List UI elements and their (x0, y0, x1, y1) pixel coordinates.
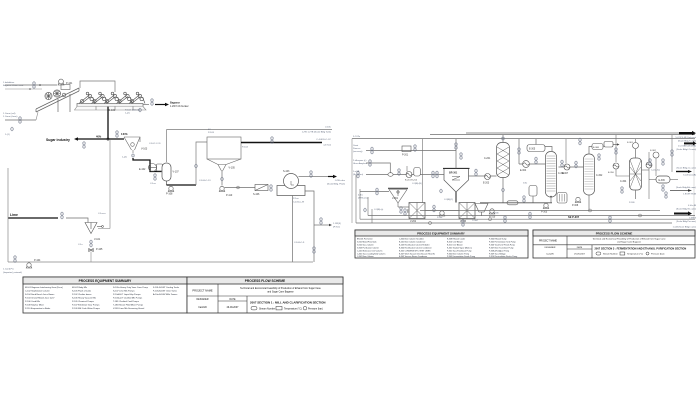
output: stillage arrow (674, 211, 692, 215)
svg-text:C-3(B)(C): C-3(B)(C) (444, 199, 453, 201)
wire: milk of lime down (90, 252, 92, 263)
svg-text:E-308: E-308 (593, 147, 600, 149)
CO2 scrubber C-201 (497, 143, 510, 178)
svg-text:P-105 Chemical Pumps: P-105 Chemical Pumps (72, 301, 94, 303)
mixer node (388, 173, 393, 177)
wire: juice to sugar industry (74, 137, 124, 140)
svg-text:(Scale Bldg. Plant): (Scale Bldg. Plant) (327, 183, 345, 186)
wire: yeast line (366, 150, 456, 152)
svg-text:P-309 Sacc.Stillage: P-309 Sacc.Stillage (489, 253, 506, 256)
wire: beer column bottoms (550, 197, 552, 203)
svg-text:Gluco.Amylase: Gluco.Amylase (353, 162, 368, 165)
svg-text:C-10C-C-11: C-10C-C-11 (149, 143, 161, 145)
svg-text:Technical and Economical Feasi: Technical and Economical Feasibility of … (240, 287, 321, 290)
wire: NH3 line (360, 191, 389, 193)
pump P-104 bottom (26, 263, 32, 268)
mill unit 1 (79, 92, 95, 103)
wire: beer feed to column (519, 163, 546, 165)
svg-text:P-110: P-110 (226, 194, 233, 197)
wire: bottom rail A (420, 210, 660, 212)
svg-text:P-308 pHs Adjust Pump: P-308 pHs Adjust Pump (489, 250, 509, 253)
table body: equipment list column 2 (72, 287, 100, 310)
pump P-305 (543, 203, 549, 208)
svg-text:BR-301: BR-301 (449, 172, 458, 175)
svg-text:1.Cond.Pw: 1.Cond.Pw (3, 269, 14, 271)
instrument on offgas (502, 136, 505, 140)
svg-text:M-101: M-101 (108, 108, 116, 112)
node: bagasse label (170, 102, 189, 108)
svg-text:E-102: E-102 (139, 168, 146, 171)
svg-text:C-201 Molecular CO2 Column: C-201 Molecular CO2 Column (357, 250, 382, 253)
instrument on scrubber feed (475, 169, 478, 177)
instrument before reactor (432, 171, 435, 179)
wire: reactor feed from rail (455, 139, 457, 169)
svg-text:Technical and Economical Feasi: Technical and Economical Feasibility of … (592, 238, 666, 241)
instrument on imbibition line (33, 81, 36, 89)
instrument on yeast line 2 (414, 144, 417, 152)
svg-text:0.10C: 0.10C (325, 127, 331, 129)
svg-text:Pow.cer: Pow.cer (353, 147, 361, 150)
lime mixer V-101 (85, 223, 103, 234)
svg-text:P-103: P-103 (208, 132, 215, 134)
instrument on enzyme line (369, 159, 372, 167)
svg-text:S-106 Heavy Vacuum Mls: S-106 Heavy Vacuum Mls (72, 298, 96, 300)
svg-text:S-106: S-106 (253, 193, 260, 196)
svg-text:C-3(B)-(B): C-3(B)-(B) (412, 183, 422, 185)
svg-text:P-102 Clarifier boxes: P-102 Clarifier boxes (72, 293, 91, 296)
svg-text:and Sugar Cane Bagasse: and Sugar Cane Bagasse (617, 241, 642, 244)
svg-text:P-104 Clnd.of Mixed Juice tan: P-104 Clnd.of Mixed Juice tank* (25, 297, 55, 300)
svg-text:E-203: E-203 (483, 183, 490, 185)
svg-text:1-(1): 1-(1) (5, 134, 10, 136)
table: process equipment summary (right sheet) (355, 230, 528, 258)
instrument after mixer (398, 168, 401, 176)
legend: stream symbols (251, 306, 307, 310)
pump P-105 (89, 249, 93, 252)
node: feed labels left (353, 136, 369, 200)
instrument before filter (270, 184, 273, 192)
svg-text:CaJaVD: CaJaVD (546, 254, 554, 256)
product cooler E-309 (656, 176, 670, 183)
wire: condenser link (545, 147, 552, 152)
superheater E-310 (613, 163, 619, 169)
instrument on bottoms (523, 195, 526, 203)
wire: frame left (351, 139, 353, 223)
wire: bottom rail B (368, 215, 695, 217)
svg-text:K-301 Sealant Vapor (Mole.s): K-301 Sealant Vapor (Mole.s) (447, 247, 472, 250)
condenser E-308 (592, 144, 603, 150)
wire: bagasse outlet (143, 104, 149, 106)
svg-text:P-302 Beer Column Pump: P-302 Beer Column Pump (447, 253, 469, 256)
table body: right equipment column 3 (447, 238, 475, 259)
svg-text:K-302: K-302 (650, 150, 657, 152)
wire: mud outlet (221, 171, 223, 186)
mixer S-106 (255, 185, 268, 191)
table body: equipment list column 1 (25, 286, 63, 310)
small vessel V-301 (529, 186, 537, 197)
seed vessel V-304 (475, 204, 488, 217)
instrument below heater (154, 173, 157, 181)
svg-text:E-304: E-304 (520, 170, 527, 172)
svg-text:DESIGNER: DESIGNER (197, 299, 209, 301)
pump P-101 (58, 79, 64, 85)
wire: mash main line (366, 174, 444, 176)
instrument on clarified juice (271, 136, 274, 144)
wire: filtrate return (305, 191, 314, 262)
wire: left frame (7, 168, 9, 262)
instrument on cane feed (19, 116, 22, 124)
instrument on scrubber bottoms (502, 188, 505, 192)
screen hopper V-103 (124, 137, 140, 153)
svg-text:5.CO2e: 5.CO2e (353, 136, 361, 138)
svg-text:DATE: DATE (577, 246, 583, 249)
cell: designer / date (197, 298, 240, 309)
instrument on beer feed (518, 147, 521, 155)
fermenter V-303 (459, 203, 475, 219)
svg-text:C-201: C-201 (484, 158, 491, 160)
svg-text:29-09-2007: 29-09-2007 (574, 254, 585, 256)
output: vent arrow (679, 131, 696, 135)
svg-text:P-201: P-201 (402, 155, 409, 157)
instrument on filtrate line (313, 246, 316, 254)
wire: K-302 drop (655, 158, 657, 176)
node: juice junction (107, 138, 109, 140)
svg-text:5.CO2 4.0B Carb.vent: 5.CO2 4.0B Carb.vent (676, 136, 697, 139)
instrument on rail D (462, 219, 465, 227)
svg-text:C-100-C-W: C-100-C-W (293, 202, 305, 204)
svg-text:PROJECT NAME: PROJECT NAME (539, 239, 557, 242)
svg-text:P-104: P-104 (242, 147, 249, 149)
node: column bottom dot (550, 196, 552, 198)
svg-text:V-3x: V-3x (523, 183, 528, 185)
svg-text:P-102: P-102 (125, 110, 132, 112)
svg-text:T-1B3 Steam Filter/Mixer Pum: T-1B3 Steam Filter/Mixer Pumps (113, 304, 143, 307)
blower K-302 (653, 152, 659, 158)
wire: to sieve (616, 169, 630, 176)
svg-text:P-105: P-105 (96, 248, 103, 251)
svg-text:PROCESS EQUIPMENT SUMMARY: PROCESS EQUIPMENT SUMMARY (79, 279, 133, 283)
svg-text:V-105: V-105 (229, 167, 236, 170)
svg-text:P-304 Ethanol Sump: P-304 Ethanol Sump (489, 238, 506, 241)
cell: project name (187, 284, 343, 313)
svg-text:1.xxB (Scale Bldg.f.cane): 1.xxB (Scale Bldg.f.cane) (673, 227, 697, 229)
instrument bottom-left (14, 255, 17, 263)
wire: rail drop to rectifier (565, 139, 567, 164)
pump P-110 (219, 186, 225, 191)
svg-text:P-306: P-306 (493, 213, 499, 215)
wire: sieve overhead (635, 149, 637, 158)
shredder S-101 wheels (45, 90, 66, 100)
pump box P-201 (402, 146, 411, 152)
svg-text:P-109 Mill Cush Water Pumps: P-109 Mill Cush Water Pumps (72, 307, 100, 310)
instrument left of hopper (364, 208, 367, 212)
svg-text:Stream Number: Stream Number (259, 308, 275, 311)
svg-text:(JxTx-f): (JxTx-f) (324, 145, 332, 147)
svg-text:S-103: S-103 (283, 170, 290, 173)
svg-text:C-100-C-9: C-100-C-9 (294, 242, 305, 244)
svg-text:E-203 Rectification Column Re: E-203 Rectification Column Reboiler (399, 244, 430, 247)
svg-text:1.CO2BB (DDDDB): 1.CO2BB (DDDDB) (678, 146, 696, 148)
instrument on yeast line (371, 147, 374, 155)
svg-text:P-301 Sacc.Feedstock Pump: P-301 Sacc.Feedstock Pump (447, 250, 472, 253)
svg-text:E-305: E-305 (529, 149, 536, 151)
instrument on cake line (310, 170, 313, 178)
svg-text:1-(2): 1-(2) (125, 113, 130, 115)
svg-text:P-305: P-305 (541, 212, 548, 214)
table body: right equipment column 4 (489, 238, 517, 259)
wire: CO2 riser (422, 139, 424, 203)
svg-text:and Sugar Cane Bagasse: and Sugar Cane Bagasse (267, 291, 294, 294)
wire: lime to mixer (66, 218, 88, 223)
svg-text:E-307 Wash Vacuum Dist.Vacuum: E-307 Wash Vacuum Dist.Vacuum Heat Ex (399, 253, 435, 256)
svg-text:V-201 Mixed Feed tank: V-201 Mixed Feed tank (357, 241, 376, 244)
svg-text:(NH3.urea): (NH3.urea) (358, 197, 369, 200)
instrument on mash line (357, 171, 360, 179)
instrument on rectifier top (579, 138, 582, 146)
cell grid right scheme (533, 236, 695, 258)
preheater E-304 (523, 161, 530, 168)
inline capsule on bottoms (507, 201, 518, 205)
instrument on right riser (671, 149, 674, 157)
instrument below cooler (662, 184, 665, 192)
svg-text:E-2x1 E-2x2: E-2x1 E-2x2 (405, 180, 418, 182)
wire: cooler inlet (649, 179, 656, 181)
svg-text:E-305 CONDENS WTC VENT LINES: E-305 CONDENS WTC VENT LINES (399, 251, 431, 253)
svg-text:(recovery): (recovery) (353, 150, 363, 153)
svg-text:C-3x4: C-3x4 (472, 220, 478, 222)
svg-text:(Scale Bldg.f.Cr.vent): (Scale Bldg.f.Cr.vent) (676, 148, 696, 151)
svg-text:P-10xB-DT Liquid Vap Pumps: P-10xB-DT Liquid Vap Pumps (113, 294, 141, 296)
svg-text:Temperature (°C): Temperature (°C) (627, 253, 643, 256)
rectifier column C-302 (584, 154, 595, 195)
node: bottom-right label (673, 227, 697, 229)
svg-text:M-101 Bagasse Interleaving Ge: M-101 Bagasse Interleaving Gear (Ex.m) (25, 286, 63, 289)
node: rail labels right (302, 127, 332, 134)
svg-text:S-107 Lime Mls Pumps: S-107 Lime Mls Pumps (113, 291, 134, 293)
svg-text:P-307 Beer Transfuser Pump: P-307 Beer Transfuser Pump (489, 247, 514, 250)
table: process flow scheme (right sheet) (533, 230, 695, 258)
wire: mill recycle line (80, 81, 115, 92)
instrument left of reactor (436, 171, 439, 179)
instrument below mixer (90, 240, 93, 248)
wire: sieve bottoms (635, 190, 637, 199)
mill unit 2 (92, 92, 108, 103)
svg-text:P-309: P-309 (629, 202, 635, 204)
wire: scrubber water feed (469, 175, 497, 177)
instrument under hopper (132, 153, 135, 157)
wire: bottom rail D (356, 222, 672, 224)
svg-text:C-1x: C-1x (78, 244, 84, 246)
junction circles on rails (429, 209, 642, 225)
instrument right of C-302 (598, 153, 601, 161)
svg-text:E-304 Rectification Column Co: E-304 Rectification Column Condenser (399, 247, 432, 250)
wire: mud to filter (225, 187, 256, 189)
svg-text:F-101-B-DNT Cooling Tanks: F-101-B-DNT Cooling Tanks (153, 287, 179, 289)
svg-text:1.1W(5): 1.1W(5) (333, 223, 341, 225)
wire: lime line (8, 217, 58, 219)
label P-103 (208, 129, 215, 134)
wire: hopper outlet (398, 206, 413, 208)
svg-text:V-303 Purification Column: V-303 Purification Column (357, 247, 379, 250)
wire: bottom water rail (8, 261, 313, 263)
wire: left drops to rails (356, 175, 368, 223)
svg-text:Lime: Lime (10, 213, 18, 217)
molecular sieve C-304 (630, 158, 642, 190)
svg-text:V-202 Sacc.Column: V-202 Sacc.Column (357, 245, 374, 247)
wire: vessel bottoms (166, 181, 168, 185)
svg-text:PROJECT NAME: PROJECT NAME (192, 289, 213, 293)
wire: imbibition water line (5, 84, 57, 86)
svg-text:C-3(B)-(x): C-3(B)-(x) (374, 209, 384, 211)
wire: sieve rail drop (615, 135, 617, 162)
svg-text:E-308 Ethanol Cooler: E-308 Ethanol Cooler (447, 238, 465, 241)
node: vent labels (676, 136, 697, 143)
svg-text:CaJaVD: CaJaVD (198, 307, 207, 309)
beer column C-301 (546, 152, 557, 198)
heater E-201 (406, 166, 412, 178)
wire: filtrate downcomer (292, 196, 294, 263)
wire: juice to heater (133, 158, 162, 172)
svg-text:E-310: E-310 (608, 172, 615, 174)
heater E-102 (149, 164, 163, 172)
svg-text:2.xEnzyme (c): 2.xEnzyme (c) (353, 160, 367, 162)
svg-text:1.Imbibition: 1.Imbibition (3, 81, 15, 84)
wire: cane feed line (5, 119, 36, 121)
table body: right equipment column 2 (399, 238, 435, 259)
svg-text:P-305 Fermentation Tank Pump: P-305 Fermentation Tank Pump (489, 241, 516, 244)
instrument on feed line (535, 157, 538, 165)
svg-text:1.EtOH 99.6B: 1.EtOH 99.6B (683, 193, 696, 196)
node: stillage labels (676, 205, 697, 211)
output: co2 arrow (684, 141, 697, 145)
svg-text:1.Cane (clean): 1.Cane (clean) (3, 116, 18, 118)
svg-text:4.Vin 4B: 4.Vin 4B (688, 205, 696, 207)
svg-text:E-201 Beer Column Condenser: E-201 Beer Column Condenser (399, 241, 426, 244)
wire: vessel vapour line (166, 130, 168, 163)
svg-text:E-309 Vacuum Steam Condenser: E-309 Vacuum Steam Condenser (399, 255, 427, 258)
node: clarified juice labels (316, 139, 331, 147)
wire: top vapour rail (167, 129, 333, 131)
svg-text:DESIGNER: DESIGNER (545, 247, 556, 249)
instrument on riser (195, 164, 198, 168)
svg-text:40%: 40% (96, 135, 102, 139)
svg-text:V-101: V-101 (94, 238, 101, 241)
svg-text:P-3xx: P-3xx (437, 217, 443, 219)
svg-text:4.Brs: 4.Brs (358, 194, 363, 197)
svg-text:29-09-2007: 29-09-2007 (227, 307, 239, 309)
svg-text:(Scale Bldg.xC.cane): (Scale Bldg.xC.cane) (676, 168, 696, 170)
svg-text:E-310 CO2 Blower: E-310 CO2 Blower (447, 241, 463, 244)
cooler E-203 (485, 174, 491, 180)
svg-text:Yeast: Yeast (353, 144, 359, 147)
svg-text:2007 SECTION 3 : FERMENTATION: 2007 SECTION 3 : FERMENTATION AND ETHANO… (595, 246, 687, 250)
instrument cluster under hopper (400, 206, 403, 214)
svg-text:Pressure (bar): Pressure (bar) (308, 308, 323, 311)
node: water labels (3, 269, 22, 275)
wire: beer feed riser (518, 139, 520, 164)
svg-text:BR-301 Fermenter: BR-301 Fermenter (357, 238, 373, 241)
svg-text:V-201: V-201 (392, 198, 399, 200)
svg-text:P-306 Yeast/CO2 Feeds Pump: P-306 Yeast/CO2 Feeds Pump (489, 244, 515, 247)
svg-text:E-309: E-309 (659, 180, 666, 182)
svg-text:2007 SECTION 1 : MILL AND CLA: 2007 SECTION 1 : MILL AND CLARIFICATION … (250, 301, 325, 305)
beer column reboiler (557, 193, 567, 204)
instrument left of E-307 (561, 160, 564, 168)
svg-text:PROCESS FLOW SCHEME: PROCESS FLOW SCHEME (596, 231, 633, 235)
node: imbibition water labels (3, 81, 24, 87)
shredder motor box (61, 85, 70, 90)
wire: fermenter transfer (425, 210, 459, 212)
svg-text:C-302 Beer Column: C-302 Beer Column (357, 255, 374, 258)
instrument on sieve drop (615, 147, 618, 155)
svg-text:(F.Tk.f): (F.Tk.f) (333, 227, 340, 229)
fermenter V-202 (409, 203, 425, 219)
instrument on drop (575, 161, 578, 169)
svg-text:(Scale Bldg.Vin.cane): (Scale Bldg.Vin.cane) (676, 209, 696, 211)
instrument below cane feed (11, 127, 14, 131)
wire: feed connector (36, 112, 38, 120)
wire: product riser (648, 152, 650, 199)
wire: right riser (671, 135, 673, 172)
wire: frame right (693, 139, 695, 220)
svg-text:C-1xx-x: C-1xx-x (98, 213, 106, 215)
svg-text:1.2W f.Cb bunker: 1.2W f.Cb bunker (170, 105, 189, 108)
svg-text:P-1xx: P-1xx (293, 198, 299, 200)
svg-text:(Scale Bldg.Pw.cane): (Scale Bldg.Pw.cane) (676, 221, 696, 223)
mill unit 5 (129, 92, 145, 103)
pump P-108 (168, 186, 174, 191)
instrument on mud line (221, 177, 224, 181)
wire: rectifier overhead (589, 147, 592, 155)
wire: reactor outlet (455, 192, 457, 203)
pump P-303 (439, 211, 445, 216)
svg-text:P-103a-DT Clarified Mls Pumps: P-103a-DT Clarified Mls Pumps (113, 297, 142, 300)
wire: clarified juice outlet (241, 142, 322, 144)
table body: equipment list column 3 (113, 286, 149, 310)
instrument under mills (139, 108, 142, 112)
svg-text:C-100-C-13: C-100-C-13 (199, 180, 211, 182)
flash vessel V-107 (162, 163, 171, 181)
table: process flow scheme (left sheet) (187, 277, 343, 313)
svg-text:DATE: DATE (230, 298, 236, 301)
svg-text:V-103: V-103 (141, 148, 148, 151)
svg-text:PROCESS FLOW SCHEME: PROCESS FLOW SCHEME (245, 279, 285, 283)
mill train base M-101 (77, 104, 143, 107)
svg-text:F-103-B-DNT Clnd. Tanks: F-103-B-DNT Clnd. Tanks (153, 291, 177, 293)
svg-text:A-10x-B-DNZ Mills Towers: A-10x-B-DNZ Mills Towers (153, 293, 177, 296)
wire: rectifier feed (559, 166, 584, 168)
wire: scrubber bottoms (502, 178, 504, 204)
svg-text:Stream Number: Stream Number (603, 253, 618, 256)
interchanger E-307 (564, 164, 570, 170)
svg-text:P-104: P-104 (34, 259, 41, 262)
svg-text:C-301 Sacc.Cooling/Clnd Colum: C-301 Sacc.Cooling/Clnd Column (357, 254, 385, 256)
svg-text:Bagasse Water used: Bagasse Water used (3, 84, 24, 87)
svg-text:Temperature (°C): Temperature (°C) (284, 308, 302, 311)
wire: feed drop to rail (371, 209, 373, 223)
svg-text:PROCESS EQUIPMENT SUMMARY: PROCESS EQUIPMENT SUMMARY (417, 231, 465, 235)
output: ethanol product arrow (670, 189, 692, 192)
svg-text:C-102 Sulphitation Column: C-102 Sulphitation Column (25, 290, 51, 293)
pump P-304 (489, 209, 495, 214)
wire: cooler outlet (670, 179, 678, 181)
svg-text:Pressure (bar): Pressure (bar) (651, 253, 665, 256)
instrument on NH3 line (376, 188, 379, 196)
instrument near product arrow (665, 191, 668, 199)
table: process equipment summary (left sheet) (23, 277, 187, 313)
wire: top rail 1 (466, 132, 680, 134)
svg-text:C-304: C-304 (620, 181, 627, 183)
